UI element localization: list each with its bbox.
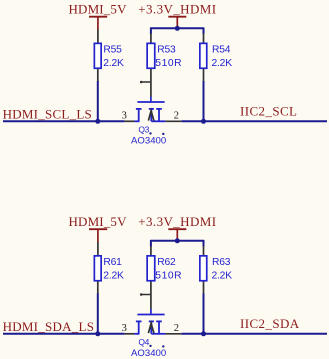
pin 1 of R55 (top)	[97, 29, 99, 43]
pin 2 of R63 (bottom)	[203, 282, 205, 294]
svg-text:510R: 510R	[155, 270, 182, 281]
power stem +3.3V_HDMI (bottom)	[176, 229, 178, 241]
mosfet Q4 pin 3 lead	[134, 333, 139, 335]
svg-text:2: 2	[174, 323, 179, 334]
mosfet Q3 pin 3 lead	[134, 120, 139, 122]
wire R54 to IIC2_SCL bus	[203, 81, 205, 121]
junction dot +3.3V rail (bottom)	[175, 238, 180, 243]
pin 3 of Q4	[124, 333, 134, 335]
wire +3.3V rail R53 to R54	[151, 27, 204, 29]
power stem HDMI_5V (bottom)	[97, 229, 99, 242]
junction dot R63/IIC2_SDA	[201, 331, 206, 336]
svg-text:AO3400: AO3400	[131, 135, 166, 146]
mosfet Q4 pin 2 lead	[151, 333, 165, 335]
svg-text:3: 3	[122, 323, 127, 334]
wire net HDMI_SCL_LS	[3, 120, 124, 122]
svg-text:2.2K: 2.2K	[212, 270, 233, 281]
svg-text:+3.3V_HDMI: +3.3V_HDMI	[138, 214, 216, 229]
power bar symbol +3.3V_HDMI (bottom)	[168, 228, 186, 230]
svg-text:R55: R55	[103, 44, 122, 55]
resistor R54 body	[200, 43, 207, 68]
svg-text:2.2K: 2.2K	[103, 58, 124, 69]
svg-text:+3.3V_HDMI: +3.3V_HDMI	[138, 2, 216, 17]
wire net HDMI_SDA_LS	[3, 333, 124, 335]
gate lead stub of Q3	[150, 97, 152, 102]
power bar symbol HDMI_5V (bottom)	[89, 228, 107, 230]
resistor R63 body	[200, 256, 207, 281]
parameter dot right (top)	[162, 133, 164, 135]
wire stub at Q3 gate net	[140, 81, 151, 83]
mosfet Q3 body contact bar	[149, 108, 154, 110]
resistor R62 body	[147, 256, 155, 281]
svg-text:Q3: Q3	[138, 124, 149, 134]
mosfet Q3 body arrow	[148, 111, 154, 121]
pin 1 of R63 (top)	[203, 246, 205, 256]
wire R63 to IIC2_SDA bus	[203, 294, 205, 334]
junction dot R55/HDMI_SCL_LS	[95, 119, 100, 124]
svg-text:R62: R62	[157, 257, 176, 268]
pin 2 of Q3	[165, 120, 181, 122]
resistor R53 body	[147, 43, 155, 68]
svg-text:AO3400: AO3400	[131, 348, 166, 359]
dot on wire stub (top)	[140, 81, 143, 84]
junction dot R61/HDMI_SDA_LS	[95, 331, 100, 336]
pin 2 of R53 and wire to Q3 gate	[150, 69, 152, 97]
pin 1 of R62 (top)	[150, 246, 152, 256]
svg-text:2: 2	[174, 111, 179, 122]
parameter dot left (bottom)	[149, 345, 151, 347]
wire net IIC2_SCL	[181, 120, 327, 122]
pin 1 of R54 (top)	[203, 34, 205, 44]
wire +3.3V rail drop to R62	[150, 240, 152, 247]
pin 2 of R61 (bottom)	[97, 282, 99, 294]
svg-text:HDMI_SCL_LS: HDMI_SCL_LS	[3, 106, 92, 121]
wire R55 to HDMI_SCL_LS bus	[97, 81, 99, 121]
resistor R55 body	[94, 43, 101, 68]
mosfet Q4 gate bar	[137, 314, 164, 316]
wire +3.3V rail drop to R53	[150, 27, 152, 34]
mosfet Q3 body contact lead	[150, 109, 152, 121]
svg-text:HDMI_5V: HDMI_5V	[69, 214, 128, 229]
wire R61 to HDMI_SDA_LS bus	[97, 294, 99, 334]
junction dot R54/IIC2_SCL	[201, 119, 206, 124]
mosfet Q4 source contact bar	[136, 320, 142, 322]
svg-text:Q4: Q4	[138, 337, 149, 347]
svg-text:R63: R63	[212, 257, 231, 268]
svg-text:HDMI_SDA_LS: HDMI_SDA_LS	[3, 319, 95, 334]
mosfet Q3 source contact lead	[138, 109, 140, 121]
svg-text:510R: 510R	[155, 58, 182, 69]
power stem +3.3V_HDMI (top)	[176, 17, 178, 29]
pin 2 of R62 and wire to Q4 gate	[150, 282, 152, 310]
mosfet Q4 body contact bar	[149, 320, 154, 322]
parameter dot right (bottom)	[162, 345, 164, 347]
wire +3.3V rail R62 to R63	[151, 240, 204, 242]
pin 2 of R55 (bottom)	[97, 69, 99, 81]
wire +3.3V rail drop to R54	[203, 27, 205, 34]
pin 1 of R53 (top)	[150, 34, 152, 44]
svg-text:R53: R53	[157, 44, 176, 55]
pin 3 of Q3	[124, 120, 134, 122]
svg-text:2.2K: 2.2K	[103, 270, 124, 281]
wire +3.3V rail drop to R63	[203, 240, 205, 247]
svg-text:R61: R61	[103, 257, 122, 268]
svg-text:IIC2_SCL: IIC2_SCL	[240, 103, 297, 118]
dot on wire stub (bottom)	[140, 293, 143, 296]
mosfet Q3 gate bar	[137, 101, 164, 103]
mosfet Q3 drain contact bar	[156, 108, 162, 110]
svg-text:R54: R54	[212, 44, 231, 55]
svg-text:2.2K: 2.2K	[212, 58, 233, 69]
pin 1 of R61 (top)	[97, 242, 99, 256]
mosfet Q4 body contact lead	[150, 321, 152, 333]
power stem HDMI_5V (top)	[97, 17, 99, 30]
pin 2 of Q4	[165, 333, 181, 335]
power bar symbol +3.3V_HDMI (top)	[168, 16, 186, 18]
pin 2 of R54 (bottom)	[203, 69, 205, 81]
mosfet Q4 body arrow	[148, 323, 154, 333]
mosfet Q3 drain contact lead	[158, 109, 160, 121]
gate lead stub of Q4	[150, 309, 152, 314]
wire net IIC2_SDA	[181, 333, 327, 335]
mosfet Q4 source contact lead	[138, 321, 140, 333]
wire stub at Q4 gate net	[140, 294, 151, 296]
mosfet Q3 source contact bar	[136, 108, 142, 110]
mosfet Q4 drain contact bar	[156, 320, 162, 322]
mosfet Q3 pin 2 lead	[151, 120, 165, 122]
svg-text:IIC2_SDA: IIC2_SDA	[240, 316, 300, 331]
junction dot +3.3V rail (top)	[175, 26, 180, 31]
resistor R61 body	[94, 256, 101, 281]
mosfet Q4 drain contact lead	[158, 321, 160, 333]
parameter dot left (top)	[149, 132, 151, 134]
power bar symbol HDMI_5V (top)	[89, 16, 107, 18]
svg-text:3: 3	[122, 111, 127, 122]
svg-text:HDMI_5V: HDMI_5V	[69, 2, 128, 17]
